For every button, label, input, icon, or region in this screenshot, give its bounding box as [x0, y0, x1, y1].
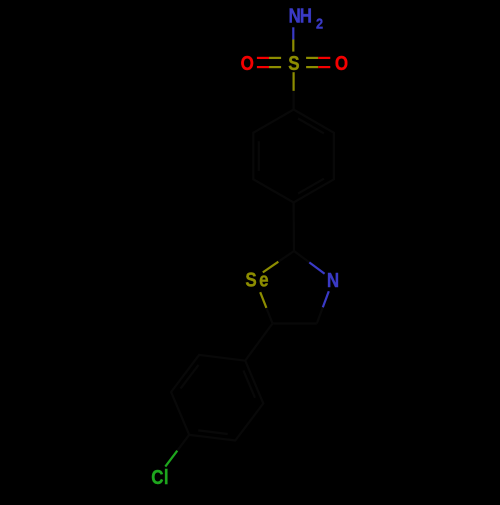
bond C4-C2' (benzene to selenazole) [293, 203, 296, 252]
svg-text:S: S [288, 52, 299, 75]
bond para-Cl [165, 435, 189, 467]
benzene ring 2 (chlorophenyl, carbon bonds) [171, 355, 263, 441]
svg-text:C: C [151, 465, 163, 488]
svg-text:O: O [335, 52, 348, 75]
bond S-C1 (to top benzene ring) [293, 72, 295, 109]
bond Se-C2' (selenazole) [263, 251, 294, 272]
bond C4'-C5' (selenazole bottom) [273, 322, 317, 324]
svg-text:O: O [241, 52, 254, 75]
svg-text:S: S [245, 268, 256, 291]
bond C5'-ipso (selenazole to chlorophenyl) [245, 324, 272, 361]
double bond S=O left [257, 58, 281, 67]
bond N-S (sulfonamide N to S) [292, 27, 294, 51]
svg-text:2: 2 [316, 15, 323, 32]
bond N-C4' (selenazole) [317, 291, 329, 323]
benzene ring 1 (top, carbon bonds) [253, 110, 334, 203]
svg-text:N: N [327, 269, 339, 292]
svg-text:l: l [164, 465, 169, 488]
svg-text:e: e [259, 268, 268, 291]
bond C2'-N (selenazole) [294, 251, 325, 274]
double bond S=O right [306, 58, 330, 67]
atom labels [151, 4, 348, 488]
bond C5'-Se (selenazole) [260, 292, 272, 323]
svg-text:H: H [300, 4, 312, 27]
